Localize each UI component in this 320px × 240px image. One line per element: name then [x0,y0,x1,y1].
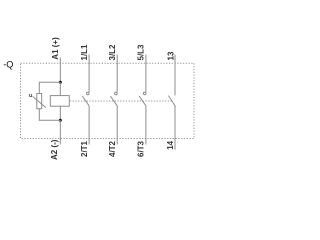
junction node bottom [59,119,62,122]
wire top branch to varistor [39,82,60,93]
wire coil to bottom junction [59,106,61,120]
coil K (A1-A2) [50,96,69,107]
varistor diagonal stroke [33,96,46,107]
varistor surge suppressor body [37,94,42,109]
auxiliary contact 13-14 [169,55,176,150]
wire A1 terminal to junction [59,58,61,83]
svg-text:3/L2: 3/L2 [108,44,117,61]
svg-text:5/L3: 5/L3 [137,44,146,61]
dashed enclosure outline [21,63,195,138]
main contact pole 3/L2-4/T2 [110,55,117,145]
svg-text:1/L1: 1/L1 [80,44,89,61]
wire varistor to bottom branch [39,109,60,121]
main contact pole 5/L3-6/T3 [139,55,146,145]
wire junction to coil [59,82,61,95]
svg-text:2/T1: 2/T1 [80,140,89,157]
svg-text:A2 (-): A2 (-) [50,139,59,160]
svg-text:6/T3: 6/T3 [137,140,146,157]
svg-text:14: 14 [166,140,175,149]
wire junction to A2 terminal [59,120,61,144]
svg-text:13: 13 [167,51,176,60]
junction node top [59,81,62,84]
main contact pole 1/L1-2/T1 [82,55,89,145]
svg-text:-Q: -Q [3,60,13,70]
svg-text:A1 (+): A1 (+) [51,37,60,60]
mechanical linkage dashed line [70,100,172,102]
svg-text:4/T2: 4/T2 [108,140,117,157]
